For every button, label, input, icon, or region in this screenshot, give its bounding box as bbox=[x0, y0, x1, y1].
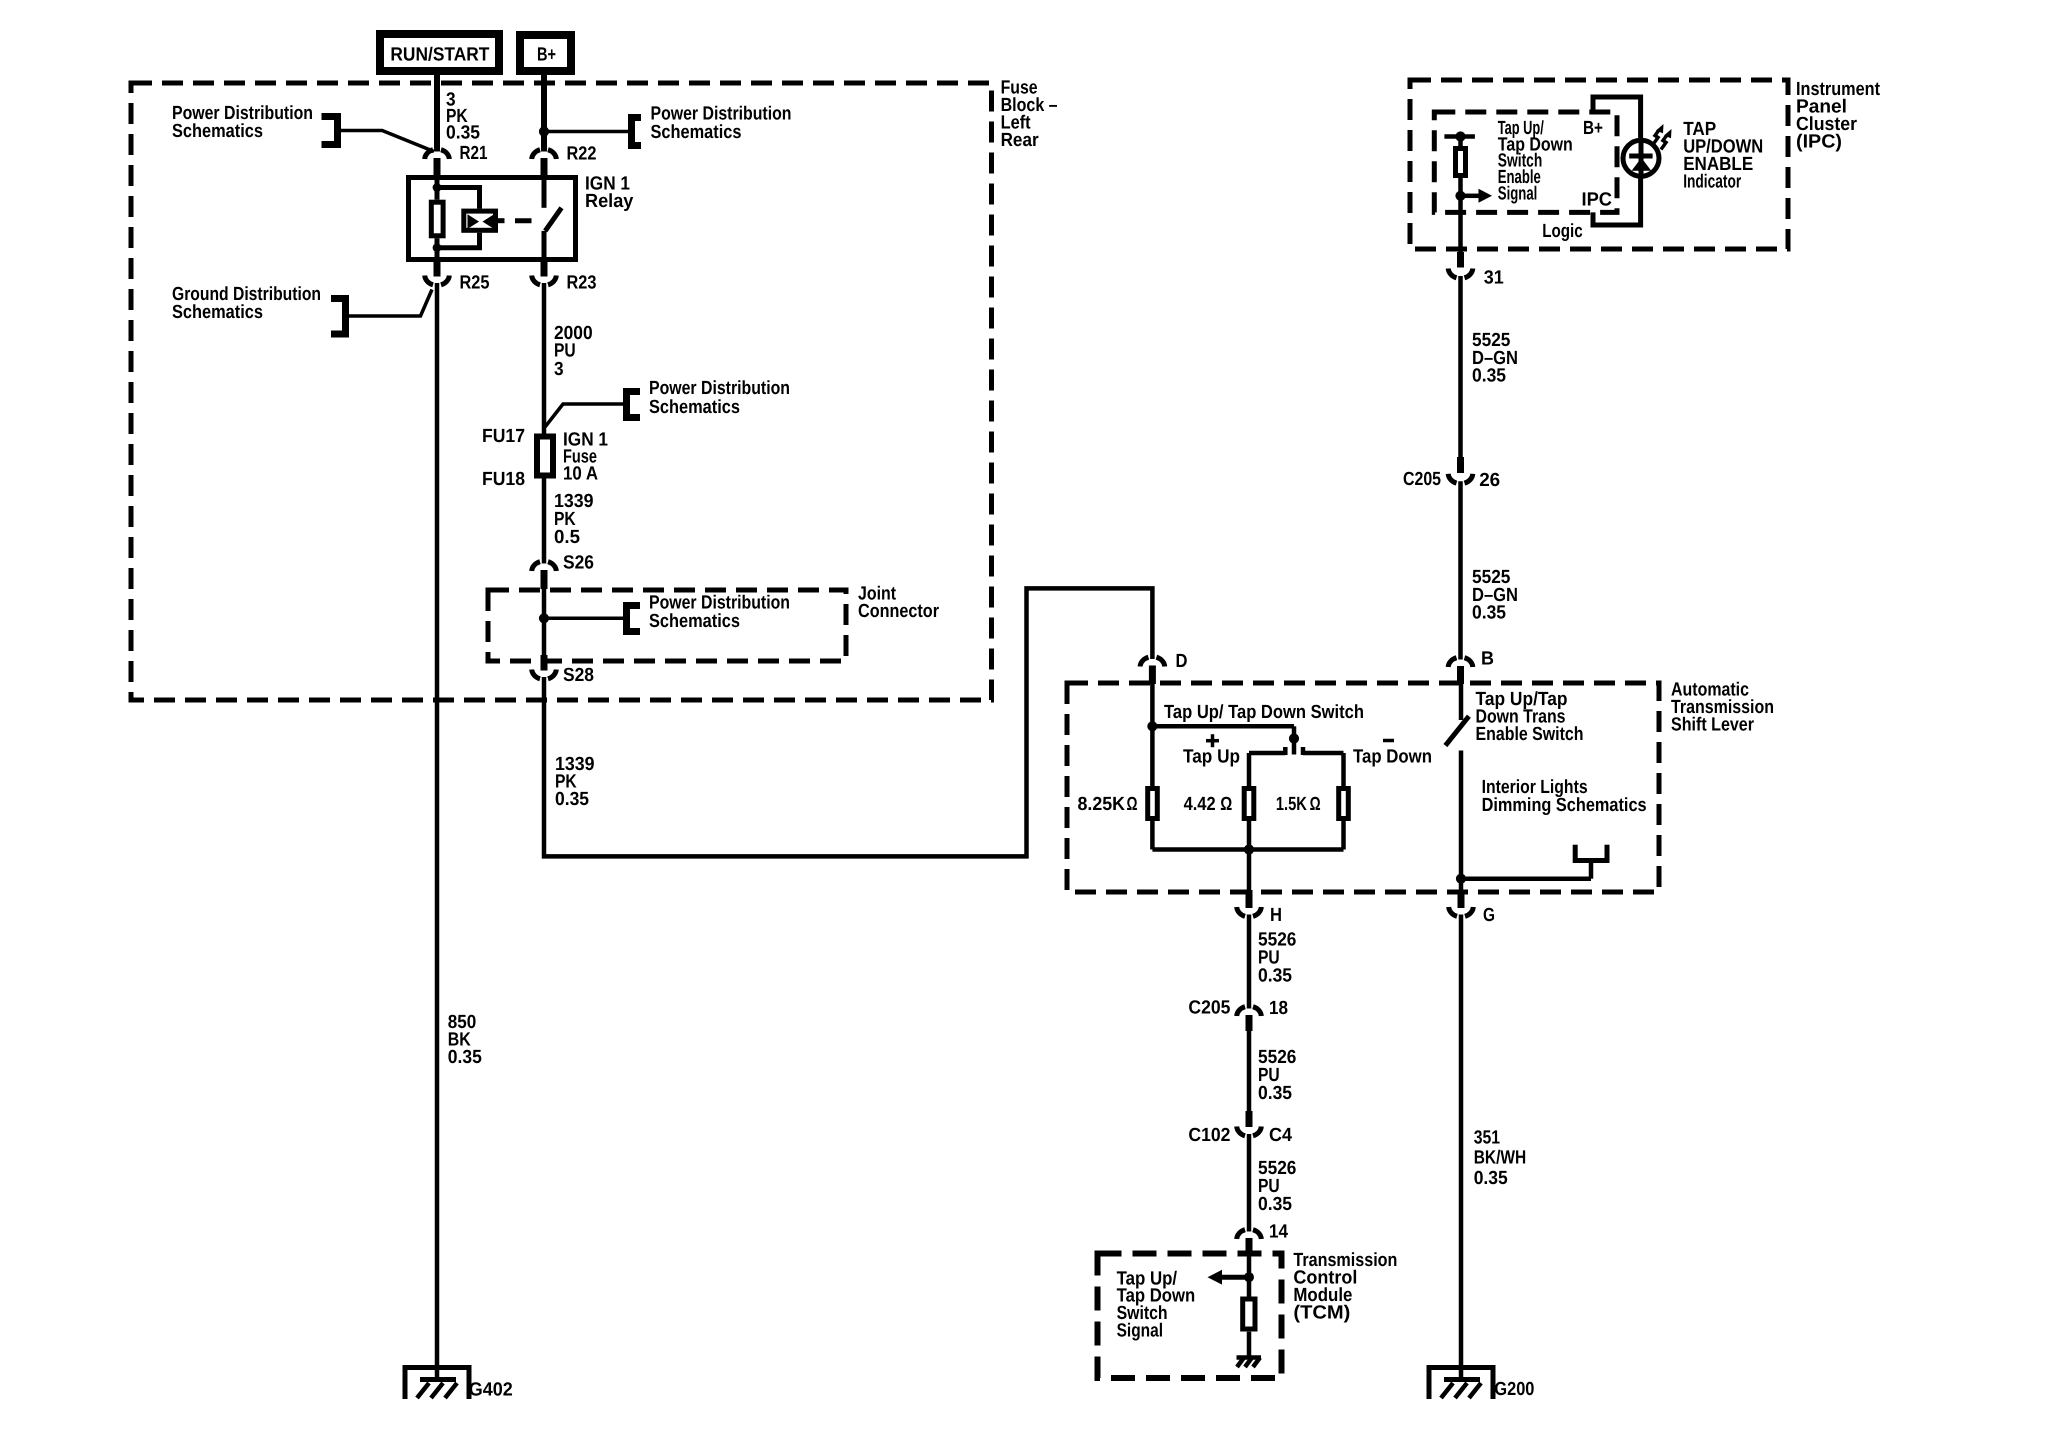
indicator LED circle bbox=[1623, 140, 1659, 176]
TCM dashed box bbox=[1098, 1254, 1282, 1379]
IPC logic dashed box bbox=[1434, 112, 1617, 212]
B+ supply box bbox=[520, 35, 571, 71]
wire S28 to D connector bbox=[544, 588, 1152, 856]
svg-text:G200: G200 bbox=[1494, 1379, 1534, 1400]
bracket power distribution at B+ bbox=[632, 118, 642, 146]
connector R21 bbox=[425, 150, 450, 159]
svg-text:G402: G402 bbox=[469, 1379, 513, 1400]
ground G200 bbox=[1429, 1368, 1493, 1400]
wire C102-C4 to 14 bbox=[1247, 1134, 1252, 1232]
connector R23 bbox=[532, 276, 557, 285]
connector G bbox=[1458, 890, 1465, 908]
connector B bbox=[1448, 658, 1473, 667]
svg-text:R23: R23 bbox=[567, 273, 597, 294]
IPC signal junction dot bbox=[1455, 191, 1465, 201]
svg-text:0.35: 0.35 bbox=[448, 1047, 482, 1068]
TCM internal ground bbox=[1237, 1355, 1262, 1360]
svg-text:FU18: FU18 bbox=[482, 469, 525, 490]
svg-text:IPC: IPC bbox=[1582, 189, 1613, 210]
svg-text:14: 14 bbox=[1269, 1222, 1288, 1243]
splice S26 bbox=[532, 562, 557, 571]
svg-text:C4: C4 bbox=[1269, 1125, 1292, 1146]
fuse block left rear dashed box bbox=[131, 83, 992, 700]
leader to R21 bbox=[341, 131, 434, 152]
IGN 1 relay box bbox=[409, 178, 576, 260]
svg-text:Schematics: Schematics bbox=[649, 397, 740, 418]
wire R23 to fuse FU17 bbox=[542, 283, 547, 434]
B switch wire bbox=[1459, 684, 1464, 720]
svg-text:18: 18 bbox=[1269, 998, 1288, 1019]
relay driver box with X bbox=[464, 211, 496, 230]
svg-text:(IPC): (IPC) bbox=[1796, 132, 1842, 153]
relay driver stub and dash bbox=[498, 218, 505, 223]
svg-text:Signal: Signal bbox=[1498, 184, 1538, 205]
resistor 4.42 bbox=[1244, 789, 1254, 819]
LED wire through circle bbox=[1639, 140, 1644, 177]
svg-text:B+: B+ bbox=[537, 45, 556, 66]
resistor bottom wires bbox=[1150, 821, 1155, 850]
svg-text:0.35: 0.35 bbox=[1258, 1194, 1292, 1215]
relay junction dots bbox=[433, 183, 442, 192]
switch contact lines bbox=[1249, 751, 1285, 756]
connector H bbox=[1246, 890, 1253, 908]
svg-text:4.42: 4.42 bbox=[1184, 794, 1216, 815]
svg-text:Shift Lever: Shift Lever bbox=[1671, 715, 1755, 736]
LED triangle bbox=[1632, 158, 1652, 171]
svg-text:26: 26 bbox=[1479, 470, 1500, 491]
svg-text:0.35: 0.35 bbox=[555, 789, 589, 810]
TCM arrow bbox=[1222, 1275, 1246, 1280]
svg-text:Indicator: Indicator bbox=[1683, 172, 1741, 193]
svg-text:3: 3 bbox=[554, 359, 564, 380]
resistor 8.25K bbox=[1148, 789, 1158, 819]
IPC pull-up resistor bbox=[1456, 149, 1466, 176]
wire RUN/START to R21 bbox=[434, 75, 440, 152]
connector C102-C4 bbox=[1246, 1111, 1253, 1127]
svg-text:(TCM): (TCM) bbox=[1293, 1303, 1350, 1324]
junction dot on G wire bbox=[1456, 874, 1466, 884]
wire H to C205-18 bbox=[1247, 915, 1252, 1009]
svg-text:1.5K: 1.5K bbox=[1276, 794, 1307, 815]
junction dot on B+ wire bbox=[539, 126, 549, 136]
svg-text:S28: S28 bbox=[563, 665, 594, 686]
wire R25 to G402 bbox=[435, 283, 440, 1380]
IPC supply rail bbox=[1444, 134, 1475, 139]
connector C205-26 bbox=[1457, 457, 1464, 473]
svg-text:0.35: 0.35 bbox=[1472, 603, 1506, 624]
connector 31 bbox=[1457, 252, 1464, 268]
wire fuse to S26 bbox=[542, 478, 547, 564]
svg-text:Schematics: Schematics bbox=[649, 611, 740, 632]
relay coil bbox=[431, 202, 443, 236]
switch pole bbox=[1292, 726, 1297, 754]
svg-text:C205: C205 bbox=[1403, 469, 1441, 490]
wire C205-26 to B bbox=[1458, 481, 1463, 659]
svg-text:S26: S26 bbox=[563, 553, 594, 574]
svg-text:FU17: FU17 bbox=[482, 426, 525, 447]
bracket power distribution top left bbox=[322, 117, 338, 145]
svg-text:0.35: 0.35 bbox=[446, 123, 480, 144]
switch top rail bbox=[1152, 724, 1294, 729]
branch wires bbox=[1247, 753, 1252, 786]
B switch blade bbox=[1445, 716, 1469, 745]
bracket power distribution at FU17 bbox=[627, 392, 641, 418]
relay internal wire left bbox=[435, 175, 440, 200]
svg-text:Power Distribution: Power Distribution bbox=[649, 378, 790, 399]
svg-text:Tap Up: Tap Up bbox=[1183, 747, 1240, 768]
svg-text:0.5: 0.5 bbox=[554, 527, 580, 548]
connector D bbox=[1140, 657, 1165, 666]
svg-text:8.25K: 8.25K bbox=[1078, 794, 1126, 815]
LED cathode bar bbox=[1629, 154, 1652, 159]
bracket power distribution joint connector bbox=[627, 606, 641, 632]
LED light arrow 1 bbox=[1653, 130, 1659, 145]
IPC wire to 31 bbox=[1458, 212, 1463, 253]
svg-text:Rear: Rear bbox=[1001, 130, 1040, 151]
connector 14 bbox=[1237, 1230, 1262, 1239]
joint connector dashed box bbox=[488, 590, 846, 661]
resistor 1.5K bbox=[1339, 789, 1349, 819]
svg-text:0.35: 0.35 bbox=[1472, 366, 1506, 387]
svg-text:Tap Up/ Tap Down Switch: Tap Up/ Tap Down Switch bbox=[1164, 702, 1364, 723]
connector R22 bbox=[532, 150, 557, 159]
wire 31 to C205-26 bbox=[1458, 276, 1463, 457]
svg-text:Connector: Connector bbox=[858, 601, 940, 622]
svg-text:BK/WH: BK/WH bbox=[1474, 1148, 1527, 1169]
svg-text:Logic: Logic bbox=[1542, 221, 1583, 242]
svg-text:D: D bbox=[1176, 651, 1188, 672]
svg-text:Tap Down: Tap Down bbox=[1353, 747, 1432, 768]
bottom rail bbox=[1152, 847, 1343, 852]
svg-text:31: 31 bbox=[1484, 268, 1504, 289]
dimming leader wire bbox=[1461, 876, 1591, 881]
TCM junction dot bbox=[1244, 1272, 1254, 1282]
plus sign bbox=[1206, 739, 1219, 743]
junction dot in joint connector bbox=[539, 613, 549, 623]
leader from fuse wire bbox=[545, 404, 627, 427]
svg-text:Schematics: Schematics bbox=[172, 121, 263, 142]
svg-text:B: B bbox=[1481, 649, 1494, 670]
svg-text:351: 351 bbox=[1474, 1128, 1501, 1149]
IPC signal arrow bbox=[1465, 194, 1479, 199]
fuse body bbox=[537, 437, 553, 476]
wire to H bbox=[1247, 850, 1252, 892]
svg-text:0.35: 0.35 bbox=[1258, 966, 1292, 987]
svg-text:R21: R21 bbox=[460, 143, 488, 164]
TCM resistor to ground wire bbox=[1247, 1332, 1252, 1358]
wire B+ to R22 bbox=[541, 75, 547, 152]
svg-text:Enable Switch: Enable Switch bbox=[1476, 724, 1584, 745]
ATSL left wire D down bbox=[1150, 684, 1155, 786]
dimming fork symbol bbox=[1573, 845, 1578, 858]
svg-text:C205: C205 bbox=[1188, 998, 1230, 1019]
svg-text:H: H bbox=[1270, 905, 1282, 926]
svg-text:Ω: Ω bbox=[1220, 794, 1232, 815]
bracket ground distribution bbox=[331, 299, 346, 335]
automatic transmission shift lever dashed box bbox=[1067, 683, 1659, 892]
svg-text:C102: C102 bbox=[1188, 1125, 1230, 1146]
relay switch bbox=[542, 175, 547, 208]
svg-text:B+: B+ bbox=[1583, 118, 1603, 139]
leader to R25 bbox=[349, 290, 432, 317]
relay internal wire to driver box bbox=[437, 188, 480, 209]
connector R25 bbox=[425, 276, 450, 285]
leader from B+ wire bbox=[548, 130, 628, 134]
wire G to G200 bbox=[1459, 915, 1464, 1381]
minus sign bbox=[1383, 739, 1394, 743]
leader from joint connector wire bbox=[548, 617, 627, 621]
IPC solid loop to indicator bbox=[1593, 97, 1641, 225]
wire 14 to TCM resistor bbox=[1247, 1253, 1252, 1297]
svg-text:Ω: Ω bbox=[1310, 794, 1321, 815]
svg-text:R22: R22 bbox=[567, 144, 597, 165]
connector C205-18 bbox=[1237, 1007, 1262, 1016]
TCM resistor bbox=[1243, 1299, 1255, 1329]
svg-text:Schematics: Schematics bbox=[651, 122, 742, 143]
switch contact ticks bbox=[1283, 747, 1288, 755]
svg-text:RUN/START: RUN/START bbox=[390, 45, 489, 66]
wire S26 to S28 through joint connector bbox=[542, 571, 547, 670]
wire C205-18 to C102-C4 bbox=[1247, 1030, 1252, 1111]
svg-text:Signal: Signal bbox=[1117, 1321, 1163, 1342]
svg-text:10 A: 10 A bbox=[563, 464, 598, 485]
splice S28 bbox=[532, 670, 557, 679]
ground G402 bbox=[405, 1368, 469, 1400]
B switch lower wire bbox=[1459, 751, 1464, 892]
svg-text:G: G bbox=[1483, 905, 1495, 926]
svg-text:R25: R25 bbox=[460, 273, 490, 294]
svg-text:Relay: Relay bbox=[585, 191, 634, 212]
svg-text:Ω: Ω bbox=[1127, 794, 1138, 815]
svg-text:Schematics: Schematics bbox=[172, 302, 263, 323]
svg-text:0.35: 0.35 bbox=[1474, 1168, 1508, 1189]
LED light arrow 2 bbox=[1661, 135, 1667, 150]
instrument panel cluster dashed box bbox=[1410, 80, 1788, 249]
svg-text:0.35: 0.35 bbox=[1258, 1083, 1292, 1104]
RUN/START supply box bbox=[380, 34, 499, 71]
svg-text:Dimming Schematics: Dimming Schematics bbox=[1482, 795, 1647, 816]
